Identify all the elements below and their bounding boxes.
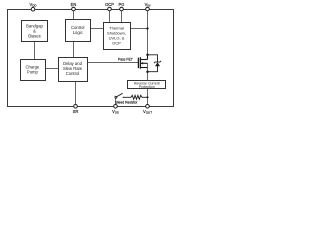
svg-text:Bleed Resistor: Bleed Resistor — [115, 100, 138, 104]
pin VIN — [145, 2, 151, 11]
svg-text:Protection: Protection — [139, 85, 155, 89]
wire VIN rail — [147, 11, 149, 55]
svg-text:Pump: Pump — [27, 69, 39, 74]
svg-text:VIN: VIN — [145, 2, 151, 8]
wire Bandgap to Charge Pump — [34, 42, 36, 60]
svg-text:SR: SR — [73, 109, 79, 114]
svg-text:Control: Control — [66, 71, 80, 76]
wire Control Logic to Thermal block — [90, 28, 104, 30]
svg-text:VSS: VSS — [112, 109, 119, 115]
wire Thermal block to VIN rail — [130, 28, 148, 30]
svg-text:EN: EN — [71, 2, 77, 7]
svg-text:OCP: OCP — [112, 40, 121, 45]
wire Control Logic to Delay block — [73, 42, 75, 58]
block Bandgap and Biases — [22, 21, 48, 42]
resistor R1 bleed resistor — [123, 95, 147, 99]
pin VOUT — [143, 105, 152, 115]
svg-text:Pass FET: Pass FET — [118, 57, 133, 61]
node junction drain-diode — [146, 54, 149, 57]
wire PG to Thermal block — [121, 11, 123, 24]
svg-text:Logic: Logic — [73, 30, 83, 35]
pin VSS — [112, 105, 119, 115]
block Delay and Slew Rate Control — [59, 58, 88, 82]
pin OCP — [105, 2, 114, 11]
svg-text:Biases: Biases — [28, 34, 41, 39]
switch S1 bleed — [115, 93, 124, 104]
pin VDD — [29, 2, 37, 11]
wire Delay block to FET gate — [87, 62, 138, 64]
wire Charge Pump to Delay block — [45, 68, 59, 70]
diode D1 body diode — [148, 55, 162, 72]
svg-text:OCP: OCP — [105, 2, 114, 7]
node junction bleed-VOUT — [146, 96, 148, 98]
svg-text:VDD: VDD — [29, 2, 37, 8]
node junction VIN-thermal — [146, 27, 148, 29]
pin EN — [71, 2, 77, 11]
block Charge Pump — [21, 60, 46, 81]
wire OCP to Thermal block — [109, 11, 111, 24]
pin SR — [73, 105, 79, 115]
wire VOUT rail — [147, 63, 149, 104]
transistor Q1 pass FET — [138, 55, 147, 69]
svg-text:PG: PG — [119, 2, 125, 7]
wire Delay block to SR pin — [75, 82, 77, 105]
block Control Logic — [66, 20, 91, 42]
block Thermal Shutdown UVLO OCP — [104, 23, 131, 50]
node junction source-diode — [146, 70, 149, 73]
block Reverse Current Protection — [128, 81, 166, 90]
svg-text:VOUT: VOUT — [143, 109, 152, 115]
IC outline U1 — [8, 10, 174, 107]
pin PG — [119, 2, 125, 11]
wire EN to Control Logic — [73, 11, 75, 20]
